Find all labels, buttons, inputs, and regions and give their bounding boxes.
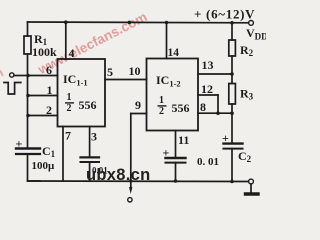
pulse waveform icon (4, 83, 21, 95)
wire pin 2 stub (28, 115, 58, 117)
wire C2 to rail (231, 149, 233, 182)
svg-text:0. 01: 0. 01 (197, 156, 219, 168)
output arrowhead (129, 187, 132, 194)
resistor R1 (24, 36, 31, 54)
node output/rail crossing (129, 179, 132, 182)
wire pin 1 stub (28, 95, 58, 97)
svg-text:14: 14 (168, 47, 180, 59)
node pin14/rail (165, 21, 169, 25)
svg-text:10: 10 (129, 64, 141, 78)
wire pin 11 (175, 131, 177, 158)
svg-text:1: 1 (159, 95, 164, 106)
svg-text:13: 13 (202, 58, 214, 72)
svg-text:2: 2 (67, 103, 72, 114)
ground symbol bar (246, 192, 259, 195)
capacitor C2 bottom plate (224, 148, 243, 150)
svg-text:12: 12 (201, 82, 213, 96)
capacitor C1 top plate (16, 147, 40, 149)
capacitor C2 top plate (224, 142, 243, 144)
output terminal circle (128, 198, 132, 202)
wire pin 11 cap to rail (175, 163, 177, 181)
node pin4/rail (64, 20, 68, 24)
svg-text:7: 7 (65, 129, 71, 143)
svg-text:100μ: 100μ (32, 160, 56, 172)
IC1-2 box (147, 59, 199, 131)
wire left node vertical (27, 54, 29, 148)
svg-text:556: 556 (79, 98, 97, 112)
op-amp U1 IC1-1 box (58, 59, 106, 127)
svg-text:ubx8.cn: ubx8.cn (86, 166, 150, 184)
wire pin 14 (166, 23, 168, 59)
capacitor 0.01 at pin 3 bottom plate (81, 161, 100, 163)
svg-text:4: 4 (69, 46, 75, 60)
svg-text:5: 5 (107, 65, 113, 79)
capacitor at pin 11 top plate (166, 157, 186, 159)
wire pin 5 to pin 10 (105, 79, 147, 81)
node R2 column/rail (230, 21, 234, 25)
node pin12/pin8 (216, 111, 220, 115)
wire pin 3 (89, 127, 91, 158)
wire pin 4 (65, 22, 67, 59)
wire R1 top lead (27, 22, 29, 36)
svg-text:556: 556 (172, 101, 190, 115)
svg-text:+: + (222, 131, 229, 145)
watermark www.elecfans.com (pink diagonal) (35, 9, 150, 77)
capacitor 0.01 at pin 3 top plate (81, 156, 100, 158)
wire C1 bottom lead (28, 154, 41, 181)
wire R2 to node 13 (231, 56, 233, 84)
wire top rail (28, 21, 249, 24)
node pin1 (26, 94, 30, 98)
svg-text:8: 8 (200, 100, 206, 114)
svg-text:100k: 100k (32, 45, 57, 59)
capacitor C1 bottom plate (16, 153, 40, 155)
supply terminal VDD (249, 21, 254, 26)
svg-text:1: 1 (67, 92, 72, 103)
svg-text:9: 9 (135, 98, 141, 112)
capacitor at pin 11 bottom plate (166, 162, 186, 164)
wire pin 9 output vertical (130, 114, 132, 190)
wire pin 12 horizontal (198, 94, 218, 96)
svg-text:2: 2 (159, 106, 164, 117)
wire pin 12 vertical (217, 95, 219, 113)
svg-text:+: + (16, 137, 23, 151)
wire pin 13 (198, 73, 232, 75)
node C2/rail (230, 180, 234, 184)
wire pin 8 (198, 112, 232, 114)
resistor R2 (229, 40, 236, 56)
node mid rail (128, 21, 132, 25)
input terminal (10, 73, 14, 77)
svg-text:+: + (163, 146, 170, 160)
svg-text:6: 6 (46, 63, 52, 77)
wire bottom rail (28, 180, 249, 183)
ground symbol stem (250, 184, 252, 193)
wire pin 6 stub (28, 75, 58, 77)
wire pin 7 (62, 127, 64, 182)
ground terminal circle (249, 179, 254, 184)
node pin2 (26, 114, 30, 118)
svg-text:2: 2 (46, 103, 52, 117)
svg-text:11: 11 (178, 133, 189, 147)
svg-text:1: 1 (47, 83, 53, 97)
watermark edge fragment (pink) (0, 65, 6, 84)
resistor R3 (229, 84, 236, 105)
wire right column top lead (231, 23, 233, 40)
wire input (14, 75, 28, 77)
node pin8/R3 bottom (230, 111, 234, 115)
svg-text:+ (6~12)V: + (6~12)V (194, 7, 255, 22)
wire pin 9 horizontal (131, 113, 147, 115)
svg-text:3: 3 (91, 130, 97, 144)
node input/pin6 (26, 74, 30, 78)
wire R3 to node 8 (231, 104, 233, 143)
node pin11 cap/rail (174, 179, 178, 183)
node pin13/R3 (230, 72, 234, 76)
wire pin 3 cap to rail (89, 162, 91, 181)
